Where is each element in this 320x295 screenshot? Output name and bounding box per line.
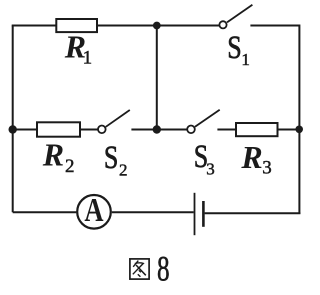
wire (S2 contact to center node): [131, 129, 156, 131]
wire (R2 to S2): [80, 129, 98, 131]
svg-text:S: S: [227, 31, 241, 66]
svg-text:R: R: [42, 136, 64, 172]
resistor R2: [37, 122, 80, 136]
svg-text:S: S: [104, 141, 118, 176]
svg-text:3: 3: [262, 158, 272, 179]
caption 图 (hanzi drawn as strokes): [130, 259, 149, 279]
wire (R1 to S1): [97, 25, 219, 27]
wire (center node to S3): [157, 129, 187, 131]
switch S1: [219, 5, 252, 29]
wire (left vertical branch): [12, 26, 14, 213]
node (right middle junction): [295, 126, 303, 134]
svg-text:2: 2: [65, 156, 75, 177]
wire (left node to R2): [13, 129, 37, 131]
wire (right vertical branch): [298, 25, 300, 215]
switch S3: [187, 110, 220, 133]
wire (S1 contact to top-right corner): [250, 25, 299, 27]
svg-text:8: 8: [157, 248, 170, 289]
wire (battery to bottom-right corner): [205, 212, 301, 214]
wire (ammeter to battery): [112, 211, 194, 213]
ammeter A: [77, 195, 111, 229]
wire (top-left to R1): [12, 25, 57, 27]
svg-text:R: R: [240, 139, 262, 175]
wire (center vertical branch): [156, 26, 158, 130]
wire (R3 to right node): [278, 129, 300, 131]
svg-text:3: 3: [206, 160, 215, 179]
node (left middle junction): [9, 125, 17, 133]
resistor R1: [56, 19, 97, 32]
resistor R3: [236, 123, 278, 136]
switch S2: [98, 110, 130, 133]
svg-text:1: 1: [241, 50, 250, 69]
svg-text:1: 1: [83, 47, 93, 68]
wire (bottom-left to ammeter): [13, 211, 77, 213]
node (center middle junction): [153, 125, 161, 133]
svg-text:2: 2: [119, 160, 128, 179]
wire (S3 contact to R3): [217, 129, 236, 131]
node (top junction): [153, 22, 161, 30]
battery cell: [195, 193, 204, 235]
svg-text:A: A: [84, 191, 103, 229]
